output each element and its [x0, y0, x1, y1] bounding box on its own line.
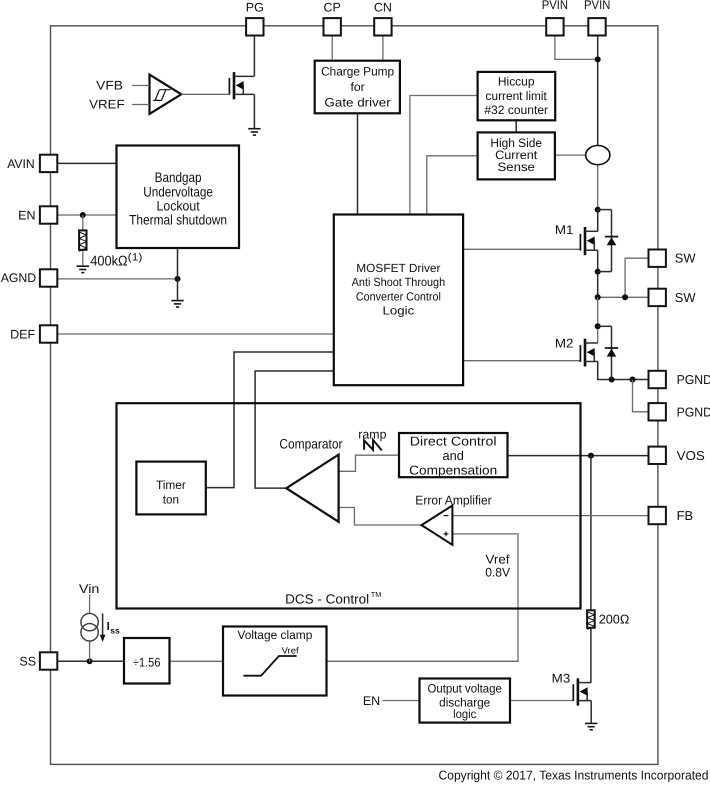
wire: PG pin to pass MOSFET drain — [253, 36, 255, 77]
block: output voltage discharge logic — [420, 679, 511, 723]
node: SW branch — [622, 294, 628, 300]
svg-text:CN: CN — [374, 0, 392, 14]
current source Iss (Vin) — [81, 613, 98, 630]
voltage clamp curve symbol — [243, 656, 296, 676]
transistor pass FET at PG — [229, 72, 254, 99]
pin SW 1 — [649, 250, 666, 267]
pin AVIN — [40, 155, 57, 172]
wire: SS pin to divider — [57, 660, 124, 662]
svg-text:200Ω: 200Ω — [599, 611, 630, 626]
svg-text:VREF: VREF — [89, 98, 125, 112]
svg-text:CP: CP — [324, 0, 341, 14]
svg-text:÷1.56: ÷1.56 — [133, 656, 161, 670]
pin AGND — [40, 269, 57, 286]
svg-text:current limit: current limit — [486, 89, 548, 103]
wire: PVIN pin 2 rail down to current sense — [597, 36, 599, 146]
wire: high side sense to sense ellipse — [555, 154, 586, 156]
wire: hiccup to high-side-sense link — [515, 120, 517, 132]
wire: CN pin to charge pump — [382, 36, 384, 61]
wire: driver to timer ton — [206, 352, 334, 488]
transistor M2 — [580, 339, 597, 367]
svg-text:PGND: PGND — [677, 372, 710, 387]
pin FB — [649, 507, 666, 524]
svg-text:AVIN: AVIN — [7, 157, 35, 171]
svg-text:PVIN: PVIN — [584, 0, 610, 12]
pin SW 2 — [649, 289, 666, 306]
pin PGND 2 — [649, 403, 666, 420]
pin PG — [246, 18, 263, 35]
wire: AVIN to bandgap — [57, 162, 116, 164]
wire: current sense to M1 drain — [597, 165, 599, 232]
wire: PVIN pin 1 drop and join — [555, 36, 598, 60]
body diode of M2 — [611, 326, 613, 379]
wire: error amp non-inverting input to Vref — [327, 534, 519, 661]
block: DCS-Control boundary — [117, 403, 581, 608]
wire: direct control to VOS pin — [508, 455, 649, 457]
svg-text:Error Amplifier: Error Amplifier — [415, 492, 492, 507]
svg-text:Sense: Sense — [498, 160, 536, 174]
wire: SW rail to M2 drain — [597, 297, 599, 343]
svg-text:Undervoltage: Undervoltage — [143, 184, 213, 199]
wire: error amp inverting input to FB pin — [452, 515, 648, 517]
svg-text:M3: M3 — [552, 671, 571, 685]
svg-text:Lockout: Lockout — [157, 199, 200, 214]
wire: 400k resistor to ground — [82, 250, 84, 266]
svg-text:(1): (1) — [128, 252, 143, 264]
svg-text:M1: M1 — [555, 223, 574, 237]
svg-text:VOS: VOS — [677, 448, 705, 463]
svg-text:Converter Control: Converter Control — [356, 290, 441, 304]
node: PVIN join — [595, 56, 601, 62]
svg-text:Compensation: Compensation — [409, 462, 497, 477]
node: EN resistor tap — [80, 212, 86, 218]
block: charge pump — [315, 61, 400, 114]
svg-text:Copyright © 2017, Texas Instru: Copyright © 2017, Texas Instruments Inco… — [439, 768, 709, 783]
svg-text:Vref: Vref — [486, 552, 511, 566]
wire: comparator to FET gate — [181, 93, 229, 95]
pin DEF — [40, 325, 57, 342]
svg-text:Voltage clamp: Voltage clamp — [237, 628, 312, 642]
wire: VOS tap down to 200 ohm — [590, 456, 592, 611]
svg-text:Logic: Logic — [383, 304, 415, 318]
ground under PG FET — [248, 129, 260, 135]
body diode of M1 — [611, 210, 613, 272]
wire: M2 source to PGND line — [598, 362, 649, 380]
ground under 400k — [77, 266, 89, 272]
pin EN — [40, 206, 57, 223]
comparator U1 (VFB hysteresis) — [150, 75, 182, 114]
svg-text:Thermal shutdown: Thermal shutdown — [129, 213, 227, 228]
wire: driver to M2 gate — [463, 360, 580, 362]
resistor 200 ohm — [587, 610, 595, 628]
svg-text:SS: SS — [19, 655, 36, 669]
node: PGND branch — [630, 377, 636, 383]
svg-text:Bandgap: Bandgap — [155, 170, 202, 185]
svg-text:Hiccup: Hiccup — [498, 75, 535, 89]
block: divider 1.56 — [124, 638, 170, 684]
pin PVIN 2 — [588, 18, 605, 35]
svg-text:for: for — [350, 80, 364, 94]
error amplifier — [422, 506, 453, 545]
M1 source to SW rail — [597, 250, 599, 297]
svg-text:Direct Control: Direct Control — [410, 434, 497, 449]
pin CP — [324, 18, 341, 35]
svg-text:and: and — [443, 448, 464, 463]
transistor M3 — [573, 678, 591, 705]
node: SW rail — [595, 294, 601, 300]
pin VOS — [649, 447, 666, 464]
svg-text:0.8V: 0.8V — [485, 566, 511, 580]
pin SS — [40, 652, 57, 669]
wire: PGND branch to PGND pin 2 — [633, 380, 649, 412]
wire: SW node line to SW pin 2 — [598, 296, 649, 298]
svg-text:Anti Shoot Through: Anti Shoot Through — [352, 275, 446, 289]
wire: Vin to current source — [89, 595, 91, 614]
svg-text:SW: SW — [675, 251, 697, 266]
svg-text:TM: TM — [371, 590, 381, 599]
ramp symbol — [364, 440, 382, 451]
wire: SW branch to SW pin 1 — [625, 258, 648, 297]
svg-text:ton: ton — [163, 492, 179, 506]
pin CN — [374, 18, 391, 35]
svg-text:Charge Pump: Charge Pump — [321, 65, 394, 79]
svg-text:PVIN: PVIN — [542, 0, 568, 12]
svg-text:FB: FB — [677, 508, 693, 523]
wire: comparator lower input from error amplifier — [339, 508, 422, 526]
svg-text:400kΩ: 400kΩ — [90, 254, 127, 270]
block: bandgap/UVLO — [117, 146, 240, 249]
svg-text:Vin: Vin — [79, 582, 100, 596]
svg-text:ss: ss — [110, 626, 120, 636]
svg-text:PG: PG — [246, 0, 264, 14]
block: high side current sense — [478, 132, 555, 179]
svg-text:Gate driver: Gate driver — [324, 96, 390, 110]
wire: EN to discharge logic — [383, 700, 420, 702]
M1 drain rail segment + node — [595, 207, 601, 213]
wire: VREF input stub — [132, 104, 149, 106]
wire: EN to bandgap — [57, 214, 116, 216]
pin PGND 1 — [649, 371, 666, 388]
block: voltage clamp — [223, 627, 327, 696]
wire: VFB input stub — [132, 85, 149, 87]
svg-text:AGND: AGND — [1, 271, 37, 285]
wire: discharge logic to M3 gate — [510, 700, 573, 702]
pin PVIN 1 — [546, 18, 563, 35]
svg-text:ramp: ramp — [358, 428, 386, 442]
wire: 200 ohm to M3 drain — [590, 628, 592, 683]
svg-text:Vref: Vref — [282, 645, 300, 655]
node: M2 body diode return — [609, 377, 615, 383]
wire: high side current sense to MOSFET driver — [427, 156, 478, 215]
ground under M3 — [585, 723, 597, 729]
svg-text:VFB: VFB — [96, 79, 123, 93]
transistor M1 — [580, 227, 597, 255]
node: VOS feedback tap — [588, 453, 594, 459]
svg-text:Timer: Timer — [156, 478, 186, 492]
wire: CP pin to charge pump — [331, 36, 333, 61]
svg-text:EN: EN — [18, 209, 35, 223]
wire: hiccup block to MOSFET driver — [410, 96, 478, 215]
wire: charge pump to MOSFET driver — [357, 114, 359, 215]
wire: driver to M1 gate — [463, 248, 580, 250]
wire: divider to voltage clamp — [170, 660, 224, 662]
svg-text:Comparator: Comparator — [279, 437, 342, 452]
wire: AGND to bandgap ground — [57, 278, 177, 280]
comparator main (DCS) — [286, 455, 338, 522]
svg-text:logic: logic — [453, 707, 476, 721]
svg-text:#32 counter: #32 counter — [484, 103, 548, 117]
Iss arrow — [102, 613, 104, 636]
wire: driver to comparator output — [255, 371, 334, 488]
wire: current source to SS line — [89, 641, 91, 661]
wire: DEF to MOSFET driver — [57, 333, 334, 335]
wire: bandgap down to ground — [177, 248, 179, 300]
wire: comparator upper input from ramp/direct control — [339, 455, 399, 471]
ground under bandgap — [171, 301, 183, 307]
svg-text:MOSFET Driver: MOSFET Driver — [356, 261, 440, 275]
wire: M3 source to ground — [590, 701, 592, 724]
node: M2 drain — [595, 323, 601, 329]
svg-text:Output voltage: Output voltage — [428, 681, 503, 695]
svg-text:SW: SW — [675, 290, 697, 305]
svg-text:M2: M2 — [555, 337, 574, 351]
current sense ellipse — [586, 146, 610, 165]
svg-text:DEF: DEF — [10, 328, 35, 342]
node: soft start source tap — [87, 658, 93, 664]
block: direct control and compensation — [399, 433, 508, 477]
node: AGND junction — [175, 276, 181, 282]
node: M1 source — [595, 269, 601, 275]
wire: EN tap to 400k resistor — [82, 215, 84, 230]
svg-text:EN: EN — [363, 694, 380, 708]
svg-text:DCS - Control: DCS - Control — [285, 591, 369, 606]
svg-text:PGND: PGND — [677, 404, 710, 419]
resistor 400k — [79, 230, 86, 249]
block: hiccup current limit — [478, 72, 556, 120]
block: timer ton — [136, 462, 205, 515]
block: MOSFET driver logic — [334, 215, 463, 386]
